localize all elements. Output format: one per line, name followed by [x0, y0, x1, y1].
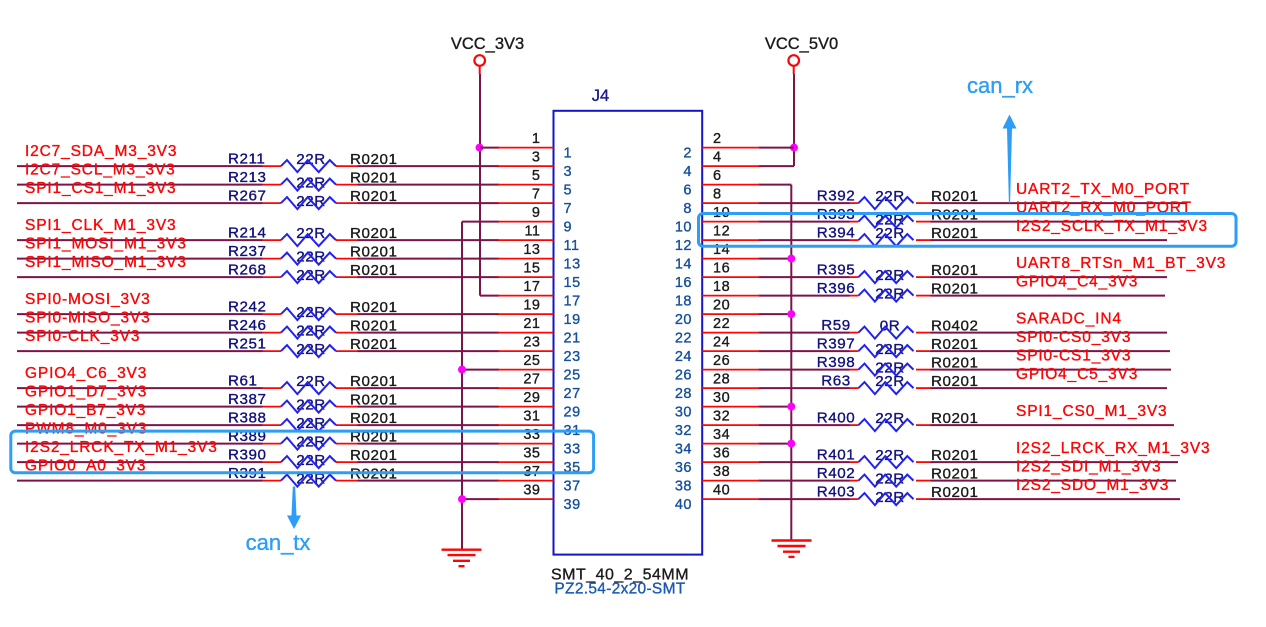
svg-text:R400: R400: [817, 410, 856, 427]
svg-text:R403: R403: [817, 484, 856, 501]
wire pin12 to R394: [759, 239, 850, 241]
svg-text:13: 13: [564, 257, 581, 273]
svg-text:1: 1: [532, 131, 541, 147]
wire R387 to pin29: [358, 406, 500, 408]
svg-text:2: 2: [683, 146, 692, 162]
resistor R213 22R R0201: [228, 169, 398, 192]
pin 6: [683, 168, 759, 199]
svg-text:26: 26: [675, 368, 692, 384]
svg-text:27: 27: [564, 386, 581, 402]
svg-text:I2S2_SCLK_TX_M1_3V3: I2S2_SCLK_TX_M1_3V3: [1016, 218, 1208, 235]
svg-text:16: 16: [713, 261, 730, 277]
wire GPIO0_A0_3V3 to R391: [17, 480, 263, 482]
svg-text:SPI1_CS1_M1_3V3: SPI1_CS1_M1_3V3: [25, 180, 176, 197]
svg-text:18: 18: [713, 279, 730, 295]
wire R392 to UART2_TX_M0_PORT: [931, 202, 1188, 204]
node junction GND pin20: [787, 310, 795, 318]
svg-text:31: 31: [523, 409, 540, 425]
svg-text:UART8_RTSn_M1_BT_3V3: UART8_RTSn_M1_BT_3V3: [1016, 255, 1226, 272]
pin 39: [498, 483, 581, 513]
wire pin8 to R392: [759, 202, 850, 204]
wire I2C7_SDA_M3_3V3 to R211: [17, 165, 263, 167]
resistor R398 22R R0201: [817, 354, 979, 377]
svg-text:32: 32: [713, 409, 730, 425]
resistor R390 22R R0201: [228, 447, 398, 470]
resistor R395 22R R0201: [817, 262, 979, 285]
wire R397 to SPI0-CS0_3V3: [931, 350, 1171, 352]
pin 7: [498, 187, 572, 218]
node junction VCC_3V3 pin1: [476, 144, 484, 152]
svg-text:R397: R397: [817, 336, 856, 353]
wire VCC_5V0 vertical: [793, 74, 795, 166]
svg-text:20: 20: [713, 298, 730, 314]
pin 11: [498, 224, 580, 255]
wire R59 to SARADC_IN4: [931, 332, 1168, 334]
resistor R387 22R R0201: [228, 391, 398, 414]
svg-text:SPI0-MOSI_3V3: SPI0-MOSI_3V3: [25, 291, 151, 308]
power symbol VCC_5V0: [765, 35, 838, 74]
pin 9: [498, 205, 572, 236]
svg-text:12: 12: [675, 238, 692, 254]
ground symbol right: [772, 541, 812, 557]
wire VCC_3V3 vertical: [479, 74, 481, 296]
svg-text:R59: R59: [821, 317, 851, 334]
svg-text:17: 17: [564, 294, 581, 310]
wire pin6 to GND: [759, 184, 792, 186]
svg-text:R61: R61: [228, 373, 258, 390]
pin 30: [675, 390, 760, 421]
svg-text:SPI1_MISO_M1_3V3: SPI1_MISO_M1_3V3: [25, 254, 187, 271]
svg-text:22: 22: [713, 316, 730, 332]
pin 14: [675, 242, 760, 273]
svg-text:R387: R387: [228, 391, 267, 408]
svg-text:R211: R211: [228, 151, 265, 168]
pin 36: [675, 446, 760, 477]
svg-text:15: 15: [564, 275, 581, 291]
svg-text:I2S2_SDI_M1_3V3: I2S2_SDI_M1_3V3: [1016, 459, 1161, 476]
svg-text:17: 17: [523, 279, 540, 295]
wire pin17 to VCC_3V3: [480, 295, 499, 297]
resistor R394 22R R0201: [817, 225, 979, 247]
svg-text:34: 34: [675, 442, 692, 458]
svg-text:28: 28: [713, 372, 730, 388]
wire pin28 to R63: [759, 387, 850, 389]
pin 3: [498, 150, 572, 181]
wire pin26 to R398: [759, 369, 850, 371]
svg-text:25: 25: [523, 353, 540, 369]
wire R268 to pin15: [358, 276, 500, 278]
wire pin25 to GND: [462, 369, 499, 371]
svg-text:R214: R214: [228, 225, 267, 242]
svg-text:SPI0-CLK_3V3: SPI0-CLK_3V3: [25, 328, 140, 345]
svg-text:33: 33: [523, 427, 540, 443]
svg-text:PWM8_M0_3V3: PWM8_M0_3V3: [25, 421, 147, 438]
pin 23: [498, 335, 581, 366]
node junction VCC_5V0 pin2: [790, 144, 798, 152]
svg-text:29: 29: [564, 405, 581, 421]
node junction GND pin25: [458, 366, 466, 374]
wire R388 to pin31: [358, 424, 500, 426]
svg-text:26: 26: [713, 353, 730, 369]
svg-text:3: 3: [532, 150, 541, 166]
wire pin34 to GND: [759, 443, 792, 445]
pin 35: [498, 446, 581, 477]
power symbol VCC_3V3: [451, 35, 524, 74]
svg-text:19: 19: [523, 298, 540, 314]
annotation arrow can_tx: [287, 487, 301, 530]
pin 32: [675, 409, 760, 440]
wire R395 to UART8_RTSn_M1_BT_3V3: [931, 276, 1168, 278]
pin 22: [675, 316, 760, 347]
wire R242 to pin19: [358, 313, 500, 315]
wire R394 to I2S2_SCLK_TX_M1_3V3: [931, 239, 1168, 241]
wire pin39 to GND: [462, 498, 499, 500]
resistor R267 22R R0201: [228, 188, 398, 211]
svg-text:I2S2_LRCK_RX_M1_3V3: I2S2_LRCK_RX_M1_3V3: [1016, 440, 1211, 457]
svg-text:R251: R251: [228, 336, 267, 353]
svg-text:GPIO1_D7_3V3: GPIO1_D7_3V3: [25, 384, 147, 401]
wire R402 to I2S2_SDI_M1_3V3: [931, 480, 1177, 482]
svg-text:24: 24: [675, 349, 692, 365]
wire SPI0-MISO_3V3 to R246: [17, 332, 263, 334]
svg-text:10: 10: [675, 220, 692, 236]
svg-text:GPIO4_C6_3V3: GPIO4_C6_3V3: [25, 365, 147, 382]
wire R390 to pin35: [358, 461, 500, 463]
svg-text:22: 22: [675, 331, 692, 347]
svg-text:24: 24: [713, 335, 730, 351]
svg-text:38: 38: [675, 479, 692, 495]
svg-text:39: 39: [564, 497, 581, 513]
svg-text:4: 4: [683, 164, 692, 180]
svg-text:J4: J4: [592, 87, 609, 105]
svg-text:35: 35: [523, 446, 540, 462]
svg-text:R398: R398: [817, 354, 856, 371]
wire R403 to I2S2_SDO_M1_3V3: [931, 498, 1181, 500]
wire R61 to pin27: [358, 387, 500, 389]
wire GND right vertical: [790, 185, 792, 541]
svg-text:36: 36: [713, 446, 730, 462]
svg-text:21: 21: [523, 316, 540, 332]
svg-text:33: 33: [564, 442, 581, 458]
svg-text:I2C7_SDA_M3_3V3: I2C7_SDA_M3_3V3: [25, 143, 177, 160]
svg-text:22R: 22R: [296, 373, 326, 390]
resistor R242 22R R0201: [228, 299, 398, 322]
svg-text:11: 11: [524, 224, 540, 240]
wire R211 to pin3: [358, 165, 500, 167]
pin 21: [498, 316, 581, 347]
resistor R402 22R R0201: [817, 465, 979, 488]
wire R393 to UART2_RX_M0_PORT: [931, 221, 1188, 223]
resistor R397 22R R0201: [817, 336, 979, 359]
svg-text:R242: R242: [228, 299, 267, 316]
resistor R59 0R R0402: [821, 317, 978, 339]
wire pin32 to R400: [759, 424, 850, 426]
wire pin9 to GND: [462, 221, 499, 223]
wire pin24 to R397: [759, 350, 850, 352]
node junction GND pin34: [787, 440, 795, 448]
resistor R389 22R R0201: [228, 428, 398, 451]
svg-text:SPI0-CS1_3V3: SPI0-CS1_3V3: [1016, 348, 1131, 365]
wire R237 to pin13: [358, 258, 500, 260]
svg-text:R396: R396: [817, 280, 856, 297]
highlight box left (I2S2_LRCK_TX / GPIO0_A0 rows): [11, 431, 594, 473]
svg-text:37: 37: [564, 479, 581, 495]
resistor R61 22R R0201: [228, 373, 398, 395]
wire R251 to pin23: [358, 350, 500, 352]
node junction GND pin30: [787, 403, 795, 411]
svg-text:SARADC_IN4: SARADC_IN4: [1016, 311, 1122, 328]
svg-text:25: 25: [564, 368, 581, 384]
resistor R268 22R R0201: [228, 262, 398, 285]
svg-text:29: 29: [523, 390, 540, 406]
svg-text:R246: R246: [228, 317, 267, 334]
wire SPI0-MOSI_3V3 to R242: [17, 313, 263, 315]
svg-text:22R: 22R: [296, 225, 326, 242]
wire GPIO1_B7_3V3 to R388: [17, 424, 263, 426]
svg-text:I2S2_LRCK_TX_M1_3V3: I2S2_LRCK_TX_M1_3V3: [25, 439, 218, 456]
wire pin20 to GND: [759, 313, 792, 315]
pin 13: [498, 242, 581, 273]
svg-text:7: 7: [532, 187, 541, 203]
pin 31: [498, 409, 581, 440]
svg-text:23: 23: [564, 349, 581, 365]
wire GPIO4_C6_3V3 to R61: [17, 387, 263, 389]
svg-text:15: 15: [523, 261, 540, 277]
pin 12: [675, 224, 760, 255]
node junction GND pin14: [787, 255, 795, 263]
pin 20: [675, 298, 760, 329]
svg-text:can_tx: can_tx: [246, 530, 311, 555]
svg-text:R268: R268: [228, 262, 267, 279]
resistor R63 22R R0201: [821, 373, 978, 395]
wire GPIO1_D7_3V3 to R387: [17, 406, 263, 408]
svg-text:38: 38: [713, 464, 730, 480]
wire R246 to pin21: [358, 332, 500, 334]
wire R401 to I2S2_LRCK_RX_M1_3V3: [931, 461, 1179, 463]
svg-text:30: 30: [675, 405, 692, 421]
svg-text:39: 39: [523, 483, 540, 499]
svg-text:6: 6: [713, 168, 722, 184]
wire pin22 to R59: [759, 332, 850, 334]
svg-text:9: 9: [532, 205, 541, 221]
svg-text:20: 20: [675, 312, 692, 328]
pin 40: [675, 483, 760, 513]
svg-text:can_rx: can_rx: [967, 73, 1033, 98]
annotation arrow can_rx: [1003, 115, 1017, 204]
svg-text:GPIO1_B7_3V3: GPIO1_B7_3V3: [25, 402, 146, 419]
svg-text:12: 12: [713, 224, 730, 240]
wire pin40 to R403: [759, 498, 850, 500]
pin 18: [675, 279, 760, 310]
pin 24: [675, 335, 760, 366]
svg-text:SPI0-MISO_3V3: SPI0-MISO_3V3: [25, 310, 151, 327]
svg-text:7: 7: [564, 201, 573, 217]
wire R400 to SPI1_CS0_M1_3V3: [931, 424, 1175, 426]
wire SPI1_CS1_M1_3V3 to R267: [17, 202, 263, 204]
pin 29: [498, 390, 581, 421]
svg-text:27: 27: [523, 372, 540, 388]
wire pin2 to VCC_5V0: [759, 147, 794, 149]
svg-text:VCC_3V3: VCC_3V3: [451, 35, 524, 53]
pin 10: [675, 205, 760, 236]
svg-text:R63: R63: [821, 373, 851, 390]
wire GND left vertical: [461, 222, 463, 550]
svg-text:36: 36: [675, 460, 692, 476]
svg-text:14: 14: [675, 257, 692, 273]
wire pin1 to VCC_3V3: [480, 147, 499, 149]
svg-text:I2C7_SCL_M3_3V3: I2C7_SCL_M3_3V3: [25, 162, 176, 179]
wire SPI0-CLK_3V3 to R251: [17, 350, 263, 352]
svg-text:21: 21: [564, 331, 581, 347]
svg-text:16: 16: [675, 275, 692, 291]
svg-text:32: 32: [675, 423, 692, 439]
svg-text:GPIO4_C5_3V3: GPIO4_C5_3V3: [1016, 366, 1138, 383]
connector J4 body SMT_40_2_54MM: [554, 111, 703, 555]
svg-text:40: 40: [713, 483, 730, 499]
svg-text:R237: R237: [228, 243, 267, 260]
svg-text:23: 23: [523, 335, 540, 351]
wire R267 to pin7: [358, 202, 500, 204]
wire pin10 to R393: [759, 221, 850, 223]
resistor R214 22R R0201: [228, 225, 398, 247]
wire R214 to pin11: [358, 239, 500, 241]
pin 37: [498, 464, 581, 495]
wire SPI1_MOSI_M1_3V3 to R237: [17, 258, 263, 260]
pin 16: [675, 261, 760, 292]
pin 26: [675, 353, 760, 384]
resistor R400 22R R0201: [817, 410, 979, 432]
svg-text:R394: R394: [817, 225, 856, 242]
wire R396 to GPIO4_C4_3V3: [931, 295, 1166, 297]
resistor R396 22R R0201: [817, 280, 979, 303]
pin 8: [683, 187, 759, 218]
wire pin38 to R402: [759, 480, 850, 482]
wire PWM8_M0_3V3 to R389: [17, 443, 263, 445]
node junction GND pin39: [458, 495, 466, 503]
svg-text:R267: R267: [228, 188, 267, 205]
svg-text:R390: R390: [228, 447, 267, 464]
wire R391 to pin37: [358, 480, 500, 482]
resistor R211 22R R0201: [228, 151, 398, 173]
wire I2C7_SCL_M3_3V3 to R213: [17, 184, 263, 186]
svg-text:19: 19: [564, 312, 581, 328]
svg-text:R402: R402: [817, 465, 856, 482]
svg-text:8: 8: [713, 187, 722, 203]
svg-text:R395: R395: [817, 262, 856, 279]
svg-text:GPIO4_C4_3V3: GPIO4_C4_3V3: [1016, 274, 1138, 291]
pin 4: [683, 150, 759, 181]
svg-text:SPI1_CLK_M1_3V3: SPI1_CLK_M1_3V3: [25, 217, 176, 234]
svg-text:R213: R213: [228, 169, 267, 186]
svg-text:R401: R401: [817, 447, 856, 464]
svg-text:22R: 22R: [296, 151, 326, 168]
ground symbol left: [442, 550, 482, 567]
pin 28: [675, 372, 760, 403]
svg-text:40: 40: [675, 497, 692, 513]
wire pin14 to GND: [759, 258, 792, 260]
resistor R246 22R R0201: [228, 317, 398, 340]
svg-text:SPI1_MOSI_M1_3V3: SPI1_MOSI_M1_3V3: [25, 236, 187, 253]
wire pin16 to R395: [759, 276, 850, 278]
pin 15: [498, 261, 581, 292]
svg-text:30: 30: [713, 390, 730, 406]
wire pin30 to GND: [759, 406, 792, 408]
wire pin4 to VCC_5V0: [759, 165, 794, 167]
svg-text:3: 3: [564, 164, 573, 180]
svg-text:34: 34: [713, 427, 730, 443]
svg-text:PZ2.54-2x20-SMT: PZ2.54-2x20-SMT: [554, 581, 685, 598]
svg-text:13: 13: [523, 242, 540, 258]
resistor R251 22R R0201: [228, 336, 398, 359]
wire R389 to pin33: [358, 443, 500, 445]
wire I2S2_LRCK_TX_M1_3V3 to R390: [17, 461, 263, 463]
resistor R237 22R R0201: [228, 243, 398, 266]
wire R398 to SPI0-CS1_3V3: [931, 369, 1172, 371]
svg-text:I2S2_SDO_M1_3V3: I2S2_SDO_M1_3V3: [1016, 477, 1169, 494]
svg-text:R388: R388: [228, 410, 267, 427]
svg-text:5: 5: [532, 168, 541, 184]
resistor R401 22R R0201: [817, 447, 979, 469]
pin 5: [498, 168, 572, 199]
svg-text:18: 18: [675, 294, 692, 310]
svg-text:8: 8: [683, 201, 692, 217]
highlight box right (I2S2_SCLK_TX row): [699, 214, 1237, 247]
pin 33: [498, 427, 581, 458]
svg-text:11: 11: [564, 238, 580, 254]
wire R63 to GPIO4_C5_3V3: [931, 387, 1168, 389]
svg-text:5: 5: [564, 183, 573, 199]
svg-text:1: 1: [564, 146, 573, 162]
wire pin36 to R401: [759, 461, 850, 463]
svg-text:28: 28: [675, 386, 692, 402]
resistor R403 22R R0201: [817, 484, 979, 507]
pin 17: [498, 279, 581, 310]
wire pin18 to R396: [759, 295, 850, 297]
svg-text:4: 4: [713, 150, 722, 166]
pin 25: [498, 353, 581, 384]
resistor R388 22R R0201: [228, 410, 398, 433]
svg-text:UART2_TX_M0_PORT: UART2_TX_M0_PORT: [1016, 181, 1190, 198]
svg-text:6: 6: [683, 183, 692, 199]
resistor R392 22R R0201: [817, 188, 979, 210]
wire SPI1_CLK_M1_3V3 to R214: [17, 239, 263, 241]
svg-text:VCC_5V0: VCC_5V0: [765, 35, 838, 53]
pin 2: [683, 131, 759, 162]
svg-text:R392: R392: [817, 188, 856, 205]
svg-text:9: 9: [564, 220, 573, 236]
pin 27: [498, 372, 581, 403]
pin 38: [675, 464, 760, 495]
wire R213 to pin5: [358, 184, 500, 186]
pin 19: [498, 298, 581, 329]
svg-text:2: 2: [713, 131, 722, 147]
svg-text:SPI0-CS0_3V3: SPI0-CS0_3V3: [1016, 329, 1131, 346]
resistor R393 22R R0201: [817, 206, 979, 229]
svg-text:14: 14: [713, 242, 730, 258]
resistor R391 22R R0201: [228, 465, 398, 488]
svg-text:SPI1_CS0_M1_3V3: SPI1_CS0_M1_3V3: [1016, 403, 1167, 420]
pin 1: [498, 131, 572, 162]
wire SPI1_MISO_M1_3V3 to R268: [17, 276, 263, 278]
pin 34: [675, 427, 760, 458]
